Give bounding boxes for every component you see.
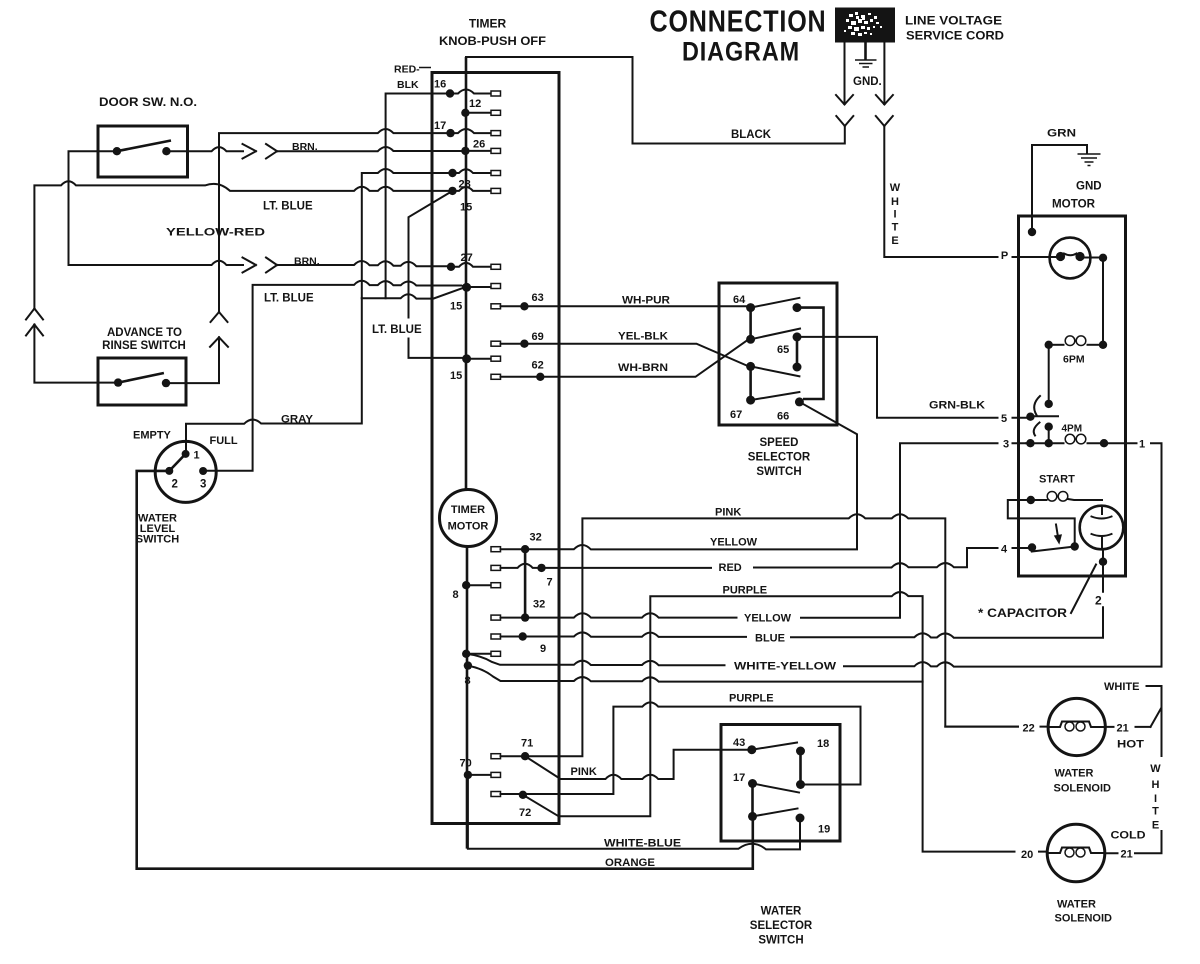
wire P inside motor [1084,257,1099,259]
advance to rinse switch box [98,358,186,405]
svg-text:COLD: COLD [1111,830,1146,842]
6PM winding right terminal [1099,341,1107,349]
wire RED-BLK vertical from timer 16 [386,94,446,298]
speed selector contact 65 upper [793,332,802,341]
water selector link 18-common [799,751,802,785]
svg-text:SERVICE CORD: SERVICE CORD [906,29,1004,43]
timer terminal 69 [520,340,528,348]
timer terminal 28 [448,169,456,177]
svg-text:4: 4 [1001,544,1008,556]
svg-text:DOOR SW. N.O.: DOOR SW. N.O. [99,97,197,109]
wire 27 to connector [455,263,490,267]
door switch box [98,126,188,177]
wire WHITE from service cord to motor P [884,126,997,257]
svg-text:15: 15 [450,301,462,313]
timer terminal 63 [520,302,528,310]
timer 8a dot to connector [470,653,490,655]
svg-text:21: 21 [1117,723,1129,735]
svg-text:GND.: GND. [853,76,882,88]
wire rinse switch left riser with connector pair [26,181,448,382]
svg-text:RED-: RED- [394,64,420,76]
svg-text:6PM: 6PM [1063,354,1085,366]
speed selector contact 66 [795,397,804,406]
connector 63 [491,304,501,309]
svg-text:BLACK: BLACK [731,129,772,141]
wire 28 to connector [457,169,490,173]
svg-text:15: 15 [450,370,462,382]
svg-text:WHITE: WHITE [1104,681,1139,693]
svg-text:SELECTOR: SELECTOR [748,452,811,464]
wire blade 71 to water selector 43 [525,750,748,779]
connector 8a [491,583,501,588]
wire YELLOW2 timer 32b to motor 3 [501,443,1027,618]
wire YEL-BLK timer 69 to speed selector [501,344,747,366]
wire BLACK from timer top to service cord [466,57,845,144]
svg-text:9: 9 [540,643,546,655]
svg-text:WHITE-BLUE: WHITE-BLUE [604,838,681,850]
svg-text:PURPLE: PURPLE [723,585,768,597]
connector 72 [491,792,501,797]
timer terminal 15c [462,354,471,363]
speed selector contact 65 lower [793,363,802,372]
wire WH-PUR timer 63 to speed selector 64 [501,305,747,307]
wire hot 22 [945,726,1018,728]
svg-text:ORANGE: ORANGE [605,857,655,869]
4PM winding left terminal [1045,439,1053,447]
connector 32b [491,615,501,620]
svg-text:LT. BLUE: LT. BLUE [264,293,314,305]
water level switch blade 2-1 [169,454,185,471]
svg-text:YEL-BLK: YEL-BLK [618,331,668,343]
wire PURPLE blade 72 to cold solenoid 20 [523,592,1047,852]
connector arrow BRN upper [243,144,257,159]
svg-text:70: 70 [460,758,472,770]
water level switch contact 3 [199,467,207,475]
wire YELLOW timer 32 to speed selector 66 [501,404,858,550]
speed selector switch box [719,283,837,425]
label ADVANCE TO RINSE SWITCH [102,327,186,352]
wire 15b to connector [471,286,490,288]
service cord block [835,8,895,43]
svg-text:66: 66 [777,411,789,423]
start switch actuation arrow [1056,525,1058,538]
connector arrow BRN lower [243,258,257,273]
motor 5 terminal [1026,413,1034,421]
svg-text:I: I [893,209,896,221]
svg-text:YELLOW: YELLOW [710,537,758,549]
water selector contact 17 lower [748,812,757,821]
svg-text:PINK: PINK [571,766,597,778]
svg-text:32: 32 [530,532,542,544]
svg-text:BLUE: BLUE [755,633,785,645]
connector chevron BRN upper [266,144,277,159]
water selector link 17-17 [751,784,754,817]
label SPEED SELECTOR SWITCH [748,437,811,478]
timer terminal 15b [462,283,471,292]
speed selector jumper 64side to 66 [797,308,824,399]
wire PURPLE2 timer 72 to water selector common [501,702,861,794]
svg-text:ADVANCE TO: ADVANCE TO [107,327,182,339]
connector 8b [491,651,501,656]
connector 70 [491,772,501,777]
svg-text:H: H [891,196,899,208]
svg-text:4PM: 4PM [1062,424,1083,435]
label TIMER KNOB-PUSH OFF [439,17,546,49]
motor 4 terminal [1028,543,1036,551]
svg-text:BRN.: BRN. [294,256,320,268]
wire 17 to connector [455,129,490,133]
connector 16 [491,91,501,96]
svg-text:64: 64 [733,294,746,306]
wire WHITE-BLUE timer 70 to water selector 19 [468,775,800,850]
connector 28 [491,171,501,176]
door switch blade [117,141,171,152]
wire 12 to connector [470,112,490,114]
cold solenoid coil [1047,848,1104,854]
speed selector blade row2 [751,329,800,340]
ground symbol at service cord [853,43,882,89]
svg-text:WHITE-YELLOW: WHITE-YELLOW [734,661,837,673]
svg-text:62: 62 [532,360,544,372]
svg-text:BLK: BLK [397,79,419,91]
svg-text:PINK: PINK [715,507,741,519]
wire 26 to connector [470,150,490,152]
svg-text:H: H [1152,779,1160,791]
svg-text:3: 3 [1003,439,1009,451]
svg-text:LT. BLUE: LT. BLUE [372,324,422,336]
svg-text:1: 1 [194,450,200,462]
wire WH-BRN timer 62 to speed selector [501,341,747,377]
protector contact left [1056,252,1065,261]
svg-text:SELECTOR: SELECTOR [750,920,813,932]
speed selector blade 64 [751,298,800,308]
door switch contact right [162,147,170,155]
wire 15 net diagonal to lower inner dot [409,191,462,358]
svg-text:67: 67 [730,409,742,421]
svg-text:* CAPACITOR: * CAPACITOR [978,608,1068,620]
start switch blade [1032,547,1071,552]
svg-text:2: 2 [172,479,178,491]
svg-text:2: 2 [1095,594,1102,608]
motor 3 terminal [1026,439,1034,447]
timer terminal 32b [521,613,529,621]
water selector blade 17 [753,784,800,793]
cold water solenoid circle [1047,824,1105,882]
timer terminal 27 [447,263,455,271]
speed contact arcs [1034,396,1040,436]
start switch jog to centrifugal contact [1008,500,1075,543]
svg-text:T: T [892,222,899,234]
wire 6PM left tap down [1048,345,1050,443]
wire y298 to timer inner dot 15 upper [386,288,463,298]
start winding lead [1035,499,1047,501]
svg-text:22: 22 [1023,723,1035,735]
svg-text:SWITCH: SWITCH [758,935,803,947]
svg-text:43: 43 [733,737,745,749]
wire BLUE timer 9 to capacitor 2 [501,566,1104,638]
wire PINK timer 71 to hot solenoid 22 [501,514,1049,756]
capacitor plates [1101,506,1103,514]
connector 15a [491,188,501,193]
svg-text:I: I [1154,793,1157,805]
speed selector contact row3 left [746,362,755,371]
wire white vertical to cold 21 [1161,708,1163,757]
speed selector link row3-67 [749,366,752,400]
start winding left terminal [1027,496,1035,504]
connector 62 [491,374,501,379]
svg-text:20: 20 [1021,849,1033,861]
wire timer 8b to purple riser [468,666,923,682]
timer terminal 16 [446,89,454,97]
svg-text:8: 8 [465,675,471,687]
connector 69 [491,341,501,346]
timer motor circle [440,490,497,547]
motor protector circle [1050,238,1091,279]
timer box [432,73,559,824]
capacitor bottom terminal [1099,558,1107,566]
svg-text:5: 5 [1001,413,1007,425]
svg-text:PURPLE: PURPLE [729,693,774,705]
water level switch circle [155,441,216,502]
svg-text:26: 26 [473,139,485,151]
start switch / capacitor circle [1080,506,1124,550]
svg-text:71: 71 [521,738,533,750]
speed selector blade row3 [751,366,800,376]
svg-text:65: 65 [777,344,789,356]
water selector contact common [796,780,805,789]
wire link at y298 [362,297,386,299]
connector 15b [491,284,501,289]
wire GRN-BLK speed selector 65 to motor 5 [797,337,1026,418]
water selector contact 43 [747,745,756,754]
connector 27 [491,264,501,269]
connector chevron BRN lower [266,258,277,273]
timer terminal 9 [519,632,527,640]
speed selector contact top right [793,303,802,312]
ground symbol motor [1078,154,1101,166]
svg-text:MOTOR: MOTOR [448,521,489,533]
water selector contact 19 [796,814,805,823]
svg-text:WH-BRN: WH-BRN [618,362,668,374]
svg-text:RINSE SWITCH: RINSE SWITCH [102,340,186,352]
svg-text:START: START [1039,474,1075,486]
timer terminal 72 [519,791,527,799]
svg-text:W: W [890,182,901,194]
svg-text:LT. BLUE: LT. BLUE [263,201,313,213]
svg-text:1: 1 [1139,439,1145,451]
timer terminal 7 [537,564,545,572]
speed selector contact 64 [746,303,755,312]
timer terminal 17 [446,129,454,137]
connector 7 [491,565,501,570]
svg-text:HOT: HOT [1117,739,1144,751]
svg-text:E: E [891,235,898,247]
timer terminal 8a [462,581,470,589]
svg-text:MOTOR: MOTOR [1052,199,1096,211]
svg-text:CONNECTION: CONNECTION [650,4,827,39]
svg-text:WATER: WATER [761,906,802,918]
svg-text:RED: RED [719,562,742,574]
timer terminal 32a [521,545,529,553]
wire water level 2 to orange run [137,471,753,869]
svg-text:SWITCH: SWITCH [136,534,179,546]
wire service cord left lead with connector arrows [836,43,853,127]
svg-text:16: 16 [434,79,446,91]
wire BRN upper to timer 26 [277,147,461,151]
timer terminal 26 [461,147,469,155]
svg-text:GND: GND [1076,181,1102,193]
svg-text:P: P [1001,250,1008,262]
svg-text:SOLENOID: SOLENOID [1055,913,1113,925]
wire RED timer 7 to motor 4 [501,548,1029,568]
6PM winding leads [1053,344,1064,346]
svg-text:32: 32 [533,599,545,611]
wire protector to 6PM right [1102,258,1104,341]
wire 15c to connector [471,358,490,360]
svg-text:18: 18 [817,738,829,750]
hot solenoid coil [1048,722,1105,728]
svg-text:EMPTY: EMPTY [133,430,172,442]
svg-text:63: 63 [532,292,544,304]
water level switch contact 2 [165,467,173,475]
wire WHITE stub to hot solenoid 21 [1147,686,1162,727]
connector 26 [491,148,501,153]
4PM winding right terminal [1100,439,1108,447]
wire 15a to connector [457,187,490,191]
svg-text:W: W [1150,763,1161,775]
svg-text:7: 7 [547,577,553,589]
timer terminal 8b [462,650,470,658]
wire WHITE-YELLOW timer 8 to motor 1 [466,443,1161,666]
connector 17 [491,131,501,136]
wire GRAY from x361 to water level switch 1 [186,298,362,450]
label WHITE vertical [890,182,901,247]
svg-text:YELLOW: YELLOW [744,613,792,625]
svg-text:SOLENOID: SOLENOID [1054,783,1112,795]
svg-text:72: 72 [519,807,531,819]
motor box [1019,216,1126,576]
speed selector contact 67 [746,396,755,405]
svg-text:KNOB-PUSH OFF: KNOB-PUSH OFF [439,34,546,48]
svg-text:WATER: WATER [1055,768,1094,780]
door switch contact left [113,147,121,155]
wire LT BLUE second from water level 3 to timer 15 inner [203,281,464,471]
6PM winding left terminal [1045,341,1053,349]
timer terminal 12 [461,109,469,117]
speed selector link 64-row2 [749,308,752,340]
4PM winding loops [1065,434,1075,444]
rinse switch contact left [114,378,122,386]
svg-text:YELLOW-RED: YELLOW-RED [166,227,265,239]
title CONNECTION DIAGRAM [650,4,827,67]
svg-text:17: 17 [733,772,745,784]
timer terminal 62 [536,373,544,381]
wire door switch right to BRN upper [166,147,243,151]
label WHITE vertical right [1150,763,1161,832]
svg-text:LINE VOLTAGE: LINE VOLTAGE [905,14,1002,28]
timer terminal 15a [448,187,456,195]
wire service cord right lead with connector arrows [876,43,893,127]
timer terminal 8c [464,661,472,669]
speed selector blade 67 [751,392,800,400]
svg-text:SWITCH: SWITCH [756,466,801,478]
svg-text:19: 19 [818,824,830,836]
4PM winding leads [1026,442,1125,444]
water selector blade 19 [753,809,798,817]
label WATER SELECTOR SWITCH [750,906,813,947]
svg-text:21: 21 [1121,849,1133,861]
water selector contact 17 [748,779,757,788]
rinse switch contact right [162,379,170,387]
svg-text:WH-PUR: WH-PUR [622,295,670,307]
timer 32-32 link [524,549,527,617]
water selector switch box [721,725,840,842]
rinse switch blade [118,373,164,383]
start winding lead to capacitor [1068,499,1102,500]
svg-text:WATER: WATER [1057,899,1096,911]
wire 16 to connector [454,90,490,94]
timer terminal 71 [521,752,529,760]
timer 70 dot to connector [472,774,490,776]
water level switch contact 1 [182,450,190,458]
svg-text:TIMER: TIMER [469,17,507,31]
connector 71 [491,754,501,759]
svg-text:GRN-BLK: GRN-BLK [929,400,985,412]
wire GRN with ground [1032,145,1087,232]
svg-text:DIAGRAM: DIAGRAM [682,37,800,67]
timer inner bus upper [465,57,468,490]
timer 8 dot to connector [466,584,490,586]
start winding loops [1047,492,1057,502]
svg-text:TIMER: TIMER [451,504,485,516]
label WATER LEVEL SWITCH [136,513,179,546]
speed selector contact row2 left [746,335,755,344]
label LINE VOLTAGE SERVICE CORD [905,14,1004,43]
svg-text:SPEED: SPEED [760,437,799,449]
svg-text:GRN: GRN [1047,128,1076,140]
svg-text:8: 8 [453,589,459,601]
svg-text:3: 3 [200,479,206,491]
wire door switch left to BRN lower [69,151,244,265]
svg-text:FULL: FULL [210,435,238,447]
svg-text:12: 12 [469,98,481,110]
connector 15c [491,356,501,361]
svg-text:T: T [1152,806,1159,818]
wire BRN lower to timer 27 [277,261,447,266]
connector 32a [491,547,501,552]
hot water solenoid circle [1048,698,1105,755]
water selector blade 43 [752,743,797,750]
speed selector link 65-65 [796,337,799,367]
svg-text:BRN.: BRN. [292,141,318,153]
wire gray-net riser x361 to timer 28 row [362,169,449,298]
centrifugal contact [1071,542,1079,550]
6PM winding loops [1065,336,1075,346]
connector 12 [491,110,501,115]
water selector contact 18 [796,747,805,756]
wire rinse switch right riser to timer 17 with connector pair [166,129,446,383]
protector contact right [1075,252,1084,261]
svg-text:69: 69 [532,331,544,343]
timer terminal 70 [464,771,472,779]
connector 9 [491,634,501,639]
timer inner bus lower [466,547,469,849]
svg-text:17: 17 [434,120,446,132]
svg-text:15: 15 [460,202,472,214]
svg-text:GRAY: GRAY [281,414,314,426]
svg-text:E: E [1152,820,1159,832]
